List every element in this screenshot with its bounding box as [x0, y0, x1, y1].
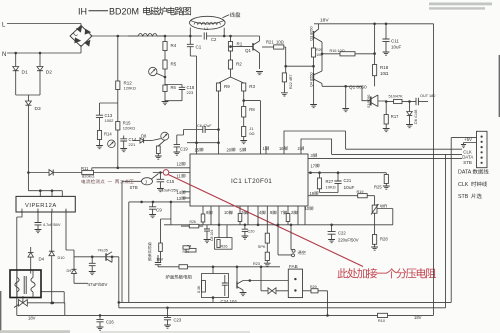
resistor R10: [378, 313, 388, 317]
svg-text:220uF/50V: 220uF/50V: [338, 238, 359, 243]
resistor on stub 1: [201, 214, 205, 222]
wire ic pin stub x278: [277, 206, 279, 225]
left edge mark: [0, 291, 1, 333]
svg-text:10: 10: [224, 210, 229, 215]
wire emitter join: [321, 42, 323, 71]
wire STB drop: [122, 181, 142, 302]
svg-text:120KΩ: 120KΩ: [124, 86, 136, 91]
dot D6: [408, 100, 411, 103]
wire loop down: [212, 298, 214, 303]
svg-text:R8: R8: [249, 107, 255, 112]
bottom edge smudge: [0, 330, 70, 333]
svg-text:R18: R18: [380, 65, 389, 70]
wire step B: [301, 139, 332, 154]
wire pin19 row: [308, 195, 358, 197]
resistor R21: [262, 46, 274, 48]
svg-text:D3: D3: [35, 106, 41, 112]
dot thermo a: [212, 266, 215, 269]
svg-text:OUT 180: OUT 180: [420, 94, 435, 98]
capacitor C24: [224, 275, 226, 283]
capacitor C12 out: [416, 98, 418, 106]
wire bottom bus2: [119, 307, 446, 309]
svg-text:D4: D4: [39, 257, 45, 262]
resistor SPK2: [266, 206, 268, 233]
dot bus202 c: [170, 201, 173, 204]
ground Q1: [256, 72, 263, 75]
svg-text:13: 13: [177, 196, 182, 201]
svg-text:510/47K: 510/47K: [389, 95, 404, 99]
bridge rectifier DB1: [70, 26, 92, 47]
svg-text:R4: R4: [171, 43, 177, 48]
label sense note: [82, 179, 86, 183]
wire tk b: [278, 225, 292, 255]
diode D9: [66, 212, 74, 269]
capacitor C14: [123, 136, 125, 139]
FAB box: [288, 269, 302, 298]
svg-text:120KΩ: 120KΩ: [123, 126, 135, 131]
wire ic pin stub x240: [239, 206, 241, 225]
dot fab drop: [326, 314, 329, 317]
resistor J1: [243, 117, 245, 127]
svg-text:R29: R29: [310, 285, 317, 289]
coil label 线盘: [230, 12, 235, 17]
wire coil left lead: [189, 28, 191, 37]
ground R6: [162, 102, 169, 105]
svg-text:C1: C1: [196, 45, 202, 50]
svg-text:R16 10Ω: R16 10Ω: [330, 49, 345, 53]
dot C6: [217, 128, 220, 131]
wire bottom bus1: [119, 301, 451, 303]
diode D5: [49, 170, 53, 176]
diode D6: [409, 102, 411, 112]
wire viper top drop: [27, 173, 29, 191]
capacitor C8: [206, 225, 208, 229]
wire pin14 stub: [183, 191, 190, 193]
wire conn gnd: [464, 143, 477, 145]
svg-text:10Ω: 10Ω: [380, 71, 389, 76]
capacitor C21: [337, 173, 339, 181]
svg-text:R1: R1: [237, 42, 243, 47]
resistor R22: [285, 66, 287, 73]
svg-text:12: 12: [177, 162, 182, 167]
dot R16 node: [373, 52, 376, 55]
svg-text:74L05: 74L05: [98, 249, 108, 253]
resistor R26a: [181, 225, 189, 227]
wire bus142: [187, 142, 219, 144]
resistor RZ: [202, 281, 206, 293]
svg-text:19: 19: [310, 191, 315, 196]
wire WR down: [374, 213, 376, 234]
label fuse vertical: [148, 242, 152, 261]
resistor R11: [82, 170, 94, 174]
svg-text:C11: C11: [391, 39, 399, 44]
resistor R20: [313, 39, 315, 48]
wire ic pin stub x248: [247, 206, 249, 225]
VIPER12A box: [16, 196, 75, 212]
svg-text:R6: R6: [171, 85, 177, 90]
capacitor C19: [177, 130, 184, 145]
resistor R18: [373, 65, 377, 76]
wire right frame: [433, 24, 435, 316]
label RZ vertical: [197, 285, 201, 293]
svg-text:C21: C21: [344, 178, 352, 183]
capacitor C23: [167, 308, 169, 318]
svg-text:R10: R10: [378, 319, 385, 323]
label tongkong: [298, 251, 302, 255]
svg-text:S1/8050: S1/8050: [367, 95, 371, 108]
wire DATA: [332, 153, 462, 155]
capacitor C20: [244, 225, 246, 229]
wire right v2: [445, 154, 447, 307]
wire R4 top: [164, 36, 166, 42]
dot thermo b: [236, 266, 239, 269]
svg-text:1002: 1002: [105, 118, 115, 123]
svg-text:R19: R19: [357, 190, 364, 194]
wire L line: [7, 23, 81, 25]
capacitor C2 series: [204, 32, 206, 39]
svg-text:47uF/50V: 47uF/50V: [88, 282, 109, 287]
svg-text:Q3 8050: Q3 8050: [309, 26, 313, 41]
wire pin11 line: [153, 172, 190, 174]
potentiometer WR: [372, 205, 377, 213]
capacitor C16: [35, 223, 42, 225]
capacitor C26: [99, 315, 101, 319]
svg-text:18V: 18V: [156, 257, 163, 262]
ground J1: [240, 141, 247, 144]
svg-text:Q1 8050: Q1 8050: [349, 85, 367, 90]
svg-text:+5V: +5V: [464, 137, 472, 142]
svg-text:D10: D10: [58, 256, 65, 260]
resistor R16: [340, 52, 355, 56]
red annotation text: [337, 268, 347, 278]
wire 18V rail: [314, 23, 434, 25]
resistor R4: [163, 42, 167, 51]
svg-text:R3: R3: [249, 84, 255, 89]
transformer windings: [15, 278, 19, 292]
wire R3 node right: [244, 101, 261, 154]
svg-text:C2: C2: [211, 37, 217, 42]
dot R3 node: [242, 99, 245, 102]
transistor Q3 8050: [313, 31, 315, 39]
label D6 4148: [414, 110, 418, 124]
wire 15pin stub: [196, 56, 198, 154]
diode D2: [39, 53, 41, 67]
svg-text:18V: 18V: [414, 315, 422, 320]
IC1 LT20F01 box: [190, 154, 308, 206]
wire drive gnd drop: [345, 86, 347, 108]
wire C11 column: [385, 24, 387, 39]
diode D4: [30, 247, 32, 253]
transformer T1 box: [10, 270, 41, 298]
resistor RT: [179, 265, 188, 269]
dot tap Q2: [164, 76, 167, 79]
coil L1 ellipse: [190, 16, 226, 29]
wire viper top bus: [28, 191, 62, 197]
svg-text:DATA: DATA: [462, 155, 473, 160]
dot j2: [164, 35, 167, 38]
svg-text:N: N: [2, 52, 6, 58]
wire R18 link: [374, 54, 376, 65]
svg-text:CLK: CLK: [458, 182, 469, 188]
wire CLK: [346, 131, 462, 149]
wire Q4 col gnd: [313, 81, 315, 104]
svg-text:18V: 18V: [28, 316, 36, 321]
svg-text:Q1: Q1: [245, 48, 252, 53]
dot j1: [117, 35, 120, 38]
svg-text:L1: L1: [204, 27, 208, 31]
svg-text:C9: C9: [156, 208, 162, 213]
wire N line: [7, 52, 81, 54]
red annotation line: [168, 175, 363, 267]
resistor R2: [230, 51, 232, 60]
dot bus315 a: [99, 314, 102, 317]
dot bls: [52, 302, 55, 305]
ground R14: [96, 146, 103, 149]
ground drive: [342, 109, 349, 112]
red circle annotation: [163, 170, 169, 176]
wire 18Vreg rail: [74, 256, 119, 258]
wire R9 down: [218, 91, 220, 154]
svg-text:C6 47uF: C6 47uF: [197, 124, 212, 128]
dot R21 node: [284, 65, 287, 68]
thermistor loop box: [212, 267, 214, 274]
wire STB: [308, 158, 462, 160]
svg-text:R17: R17: [391, 114, 399, 119]
resistor R8: [243, 101, 245, 107]
svg-text:C26: C26: [106, 320, 114, 325]
wire WR loop: [377, 209, 393, 225]
svg-text:10KΩ: 10KΩ: [326, 185, 336, 190]
wire Q9 out: [243, 280, 288, 282]
wire C13 branch: [100, 103, 118, 115]
thyristor D11: [268, 288, 272, 294]
capacitor C6: [184, 129, 203, 131]
svg-text:STB: STB: [130, 185, 138, 190]
wire viper pin1: [17, 212, 22, 315]
wire right v3: [450, 138, 452, 303]
capacitor C13: [96, 115, 103, 117]
viper pin ticks: [22, 209, 66, 213]
wire xfmr out: [41, 292, 65, 303]
svg-text:C15: C15: [167, 179, 175, 184]
dot bus224 b: [257, 224, 260, 227]
resistor R29: [311, 289, 318, 293]
triac Q8: [19, 300, 23, 307]
svg-text:16: 16: [279, 146, 284, 151]
capacitor C1: [189, 36, 191, 44]
wire drive node: [286, 65, 314, 67]
svg-text:SPK: SPK: [258, 245, 266, 249]
svg-text:10uF: 10uF: [344, 185, 355, 191]
dot coil left: [189, 35, 192, 38]
wire ic pin stub x211: [210, 206, 212, 225]
wire pin13 stub: [183, 197, 190, 199]
svg-text:10Ω: 10Ω: [276, 40, 284, 45]
wire ic pin stub x203: [202, 206, 204, 225]
label Q3: [309, 26, 313, 41]
dot N-D2: [39, 52, 42, 55]
svg-text:8.3K: 8.3K: [197, 285, 201, 293]
svg-text:10uF: 10uF: [391, 45, 402, 50]
svg-text:0Ω: 0Ω: [249, 131, 254, 136]
wire R16 link: [322, 53, 340, 55]
diode D3: [25, 101, 31, 105]
svg-text:C22: C22: [338, 231, 346, 236]
ground R17: [383, 129, 390, 132]
svg-text:DATA: DATA: [458, 170, 472, 176]
wire bus202: [129, 201, 190, 203]
svg-text:C23: C23: [174, 318, 182, 323]
connector tongkong: [292, 249, 295, 252]
dot N-D1: [14, 52, 17, 55]
resistor on stub 3: [286, 214, 290, 222]
resistor R24: [183, 246, 189, 249]
diode D1: [15, 53, 17, 67]
wire R3 down: [243, 91, 245, 101]
dot coil right: [223, 35, 226, 38]
resistor R14: [97, 131, 101, 140]
transistor Q1: [252, 43, 254, 51]
wire pin12 line: [92, 167, 190, 169]
connector CN1 box: [477, 131, 488, 167]
wire bottom left step: [30, 303, 65, 316]
svg-text:C19: C19: [180, 147, 188, 152]
wire ic pin stub x305: [304, 206, 306, 225]
svg-text:15: 15: [195, 147, 200, 152]
coil label leader: [223, 15, 230, 18]
wire sense row: [28, 172, 49, 174]
svg-text:R14: R14: [104, 132, 112, 137]
svg-text:D9: D9: [67, 269, 72, 273]
svg-text:R27: R27: [326, 179, 334, 184]
dot rail a: [373, 23, 376, 26]
dot rail b: [385, 23, 388, 26]
svg-text:17: 17: [311, 163, 316, 168]
svg-text:R5: R5: [171, 62, 177, 67]
dot bus224 a: [218, 224, 221, 227]
wire N rise to bridge: [80, 45, 82, 53]
capacitor C11: [382, 39, 389, 41]
resistor R23b: [158, 140, 165, 146]
wire ic pin stub x288: [287, 206, 289, 225]
wire ic pin stub x219: [218, 206, 220, 225]
svg-text:11: 11: [177, 174, 182, 179]
svg-text:R25: R25: [374, 185, 382, 190]
wire r27c21 join: [320, 192, 339, 194]
resistor R6: [163, 85, 167, 92]
component R26 box: [215, 238, 233, 250]
transistor Q1 IGBT: [370, 97, 372, 106]
capacitor C27: [91, 257, 93, 264]
svg-text:D2: D2: [46, 70, 52, 76]
capacitor C9: [152, 202, 154, 207]
dot out node: [321, 53, 324, 56]
svg-text:D6 4148: D6 4148: [414, 110, 418, 124]
wire R17 gnd: [385, 124, 387, 129]
capacitor C22: [331, 225, 333, 232]
diode D10: [51, 212, 53, 251]
ground R22: [281, 93, 288, 96]
resistor R9: [216, 83, 220, 91]
sensor K1 circle: [142, 178, 153, 185]
wire L drop to bridge: [80, 24, 82, 28]
wire thermo row: [158, 266, 179, 268]
svg-text:D8: D8: [141, 134, 147, 139]
svg-text:FAB: FAB: [289, 264, 298, 269]
svg-text:R9: R9: [224, 84, 230, 89]
svg-text:221: 221: [129, 142, 136, 147]
svg-text:IH: IH: [78, 7, 87, 17]
svg-text:IC1 LT20F01: IC1 LT20F01: [231, 178, 272, 185]
transistor Q4 8550: [313, 73, 315, 81]
transistor Q9: [236, 267, 238, 283]
transistor Q7 regulator: [105, 253, 107, 261]
wire left drop: [128, 202, 130, 303]
svg-text:R2: R2: [236, 62, 242, 67]
dot b172b: [318, 171, 321, 174]
wire main to Q1: [231, 35, 260, 37]
svg-text:820KΩ: 820KΩ: [82, 174, 94, 179]
wire R16 node up: [374, 24, 376, 54]
dot j4: [229, 35, 232, 38]
transistor Q6 circle: [161, 132, 169, 140]
wire bridge output: [91, 35, 203, 37]
ground Q4 col: [310, 105, 317, 108]
label C8 vertical: [210, 230, 214, 241]
svg-text:STB: STB: [458, 194, 469, 200]
dot bus142: [217, 141, 220, 144]
wire inductor span: [128, 35, 165, 37]
wire viper pin2: [37, 212, 39, 223]
svg-text:R22 4R7: R22 4R7: [289, 74, 293, 89]
wire R15 down: [117, 130, 119, 168]
ground Q9: [240, 293, 247, 296]
wire ic pin stub x258: [257, 206, 259, 225]
wire drop 170: [170, 202, 172, 225]
resistor R28: [373, 235, 377, 245]
dot b172c: [337, 171, 340, 174]
ground connector: [461, 145, 466, 148]
svg-text:R23: R23: [253, 262, 260, 266]
resistor R30 horiz: [386, 101, 393, 103]
resistor R25: [385, 173, 387, 175]
wire D1-D2 join: [16, 95, 40, 101]
dot sense: [27, 171, 30, 174]
resistor R4b: [186, 248, 196, 252]
svg-text:R24: R24: [183, 250, 189, 254]
capacitor C18: [165, 85, 182, 88]
resistor R1: [230, 36, 232, 42]
svg-text:STB: STB: [463, 160, 472, 165]
dot b172a: [309, 171, 312, 174]
svg-text:Q4 8550: Q4 8550: [309, 72, 313, 87]
wire FAB right: [303, 290, 312, 292]
resistor on stub 2: [238, 214, 242, 222]
dot drive: [344, 85, 347, 88]
wire +5V: [451, 137, 476, 139]
label S1/8050: [367, 95, 371, 108]
resistor R5: [164, 51, 166, 61]
wire coil right lead: [223, 28, 225, 36]
diode D8: [133, 140, 140, 142]
dot bus202 a: [140, 201, 143, 204]
resistor RF: [159, 243, 163, 252]
wire bus172: [308, 172, 386, 174]
dot pin11: [159, 171, 162, 174]
svg-text:WR: WR: [380, 204, 387, 209]
wire FAB left bottom: [261, 267, 288, 291]
svg-text:C20: C20: [248, 230, 255, 234]
